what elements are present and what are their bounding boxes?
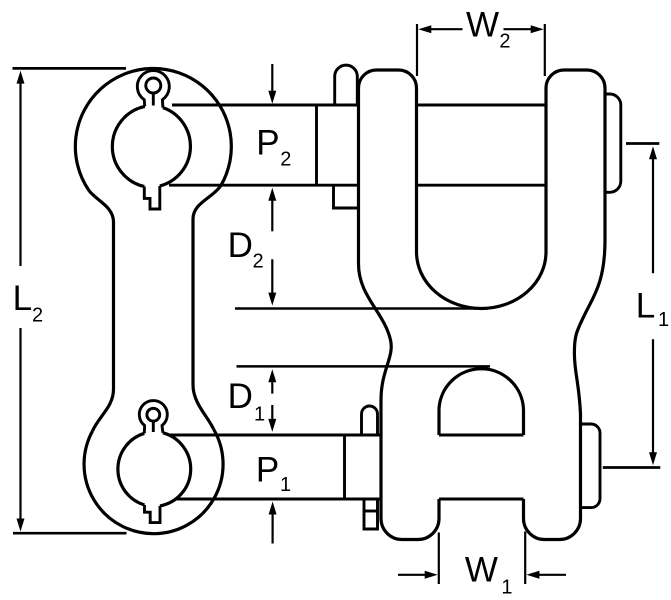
svg-text:W: W [466, 6, 499, 45]
svg-text:W: W [465, 551, 498, 590]
svg-text:L: L [13, 279, 32, 318]
svg-text:1: 1 [501, 577, 512, 599]
svg-text:2: 2 [253, 250, 264, 272]
svg-text:1: 1 [280, 474, 291, 496]
svg-text:2: 2 [499, 31, 510, 53]
svg-text:1: 1 [658, 309, 669, 331]
svg-text:D: D [228, 226, 253, 265]
svg-text:L: L [636, 286, 655, 325]
svg-text:1: 1 [254, 404, 265, 426]
svg-text:2: 2 [32, 304, 43, 326]
svg-text:P: P [256, 451, 279, 490]
svg-text:2: 2 [280, 149, 291, 171]
svg-text:P: P [256, 124, 279, 163]
svg-text:D: D [228, 377, 253, 416]
